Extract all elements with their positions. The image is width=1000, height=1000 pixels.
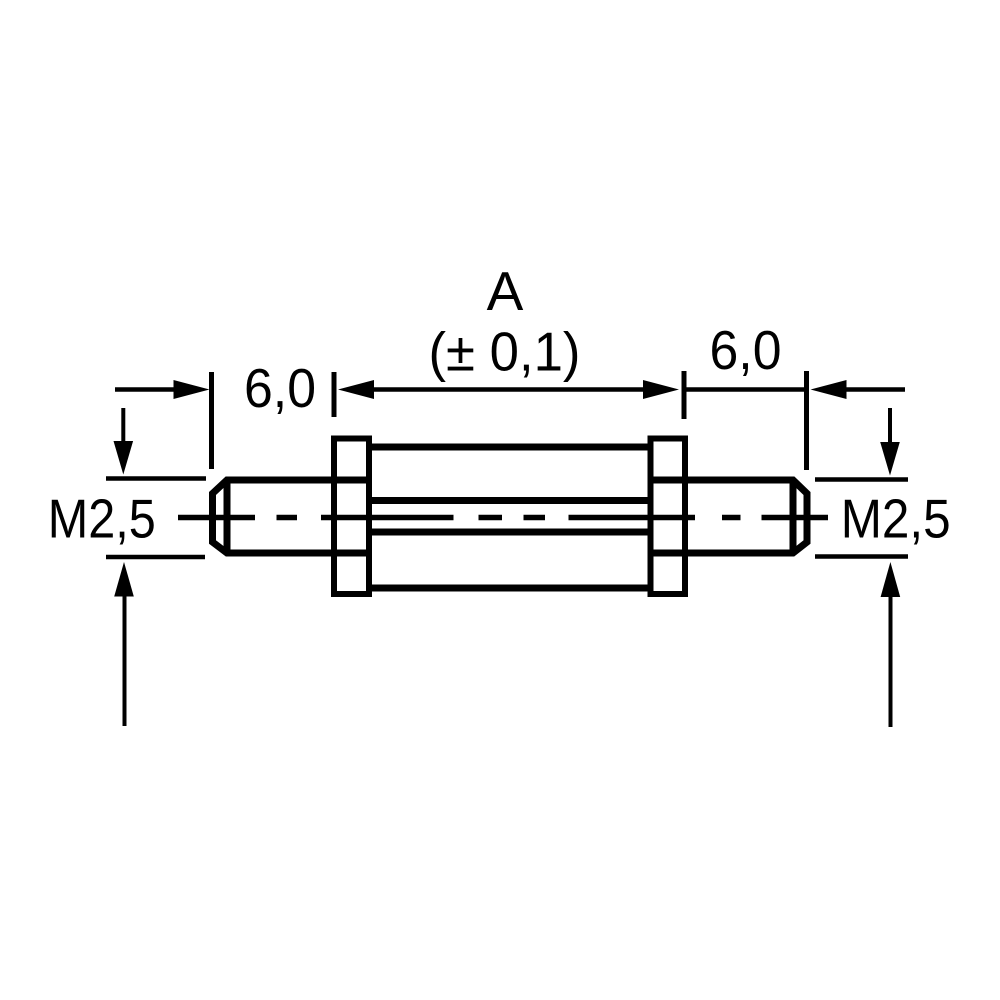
right stud outline with chamfered tip: [652, 480, 807, 553]
left flange rect: [334, 439, 369, 595]
arrowhead right diameter down: [880, 442, 900, 476]
left 6,0 leader tail: [115, 387, 176, 392]
right down-arrow shaft: [888, 408, 892, 445]
left stud outline with chamfered tip: [213, 480, 370, 553]
spacer body outline top: [369, 444, 650, 451]
left stud face line: [224, 480, 231, 553]
tick at left flange face: [332, 372, 337, 417]
svg-text:M2,5: M2,5: [841, 488, 951, 550]
arrowhead left 6,0 pointing right: [174, 380, 210, 399]
tick at right stud tip: [804, 371, 809, 470]
arrowhead right diameter up: [881, 562, 901, 597]
tick at left stud tip: [209, 372, 214, 469]
extension ticks: [212, 371, 807, 470]
arrowhead left diameter down: [114, 441, 134, 475]
right up-arrow shaft: [889, 595, 893, 727]
arrowhead A left pointing left: [338, 380, 374, 399]
right 6,0 leader tail: [844, 387, 905, 392]
arrowhead left diameter up: [114, 562, 134, 597]
internal thread line top: [369, 497, 650, 504]
right 6,0 dimension line: [684, 387, 807, 392]
left diameter ext line top: [106, 476, 206, 481]
right diameter ext line top: [815, 477, 908, 482]
svg-text:(± 0,1): (± 0,1): [429, 321, 581, 383]
center line (dash-dot axis): [178, 515, 828, 521]
left diameter ext line bottom: [106, 555, 205, 560]
tick at right flange face: [682, 371, 687, 419]
left up-arrow shaft: [123, 594, 127, 726]
dimension lines: [106, 390, 908, 558]
right stud face line: [790, 480, 797, 553]
svg-text:M2,5: M2,5: [48, 488, 156, 550]
right diameter ext line bottom: [815, 554, 908, 559]
arrow shafts vertical: [123, 408, 890, 727]
arrowhead right 6,0 pointing left: [811, 380, 847, 399]
svg-text:6,0: 6,0: [710, 319, 782, 381]
arrowheads: [114, 380, 901, 597]
spacer body outline bottom: [369, 585, 650, 592]
svg-text:6,0: 6,0: [244, 357, 316, 419]
svg-text:A: A: [487, 260, 524, 322]
internal thread line bottom: [369, 529, 650, 536]
A dimension line: [371, 387, 646, 392]
arrowhead A right pointing right: [643, 380, 679, 399]
left down-arrow shaft: [121, 408, 125, 444]
right flange rect: [651, 439, 686, 595]
